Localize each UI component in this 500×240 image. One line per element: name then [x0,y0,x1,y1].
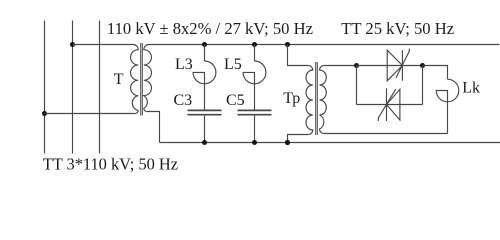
110 kV bus phase line 3 [99,21,101,154]
thyristor V2 (bottom, anode right) [387,89,400,120]
27 kV / 25 kV top bus wire [149,44,500,46]
transformer T primary winding [131,45,139,114]
capacitor C3 [188,109,222,111]
wire right rail of thyristor pair [422,66,424,105]
wire phase1 to transformer T primary bottom [45,113,136,115]
wire Tp primary top drop [288,45,309,66]
node dot A [354,63,359,68]
svg-text:TT 25 kV; 50 Hz: TT 25 kV; 50 Hz [341,19,454,38]
thyristor V1 gate [396,49,409,78]
svg-text:TT 3*110 kV; 50 Hz: TT 3*110 kV; 50 Hz [43,155,178,174]
wire phase2 to transformer T primary top [73,44,134,46]
node dot B [420,63,425,68]
transformer Tp secondary winding [320,66,327,134]
wire L3 branch top [204,45,206,62]
110 kV bus phase line 2 [72,21,74,154]
wire C3 bottom to rail [204,116,206,143]
wire Tp primary bottom to rail [288,135,309,143]
svg-text:L5: L5 [224,56,242,73]
wire C5 bottom to rail [254,116,256,143]
wire left rail of thyristor pair [356,66,358,105]
svg-text:L: L [462,80,472,97]
junction dot Tp rail [285,140,290,145]
transformer T core [140,43,142,116]
svg-text:p: p [292,90,300,107]
transformer Tp core [315,62,317,135]
svg-text:C3: C3 [174,92,193,109]
node dot L5 top [252,42,257,47]
wire T secondary bottom to rail bus [147,112,160,143]
110 kV bus phase line 1 [44,21,46,154]
wire Lk bottom to Tp secondary bottom [324,133,448,135]
node dot Tp top [285,42,290,47]
reactor L5 [243,61,266,110]
capacitor C5 [238,109,272,111]
transformer Tp primary winding [306,66,313,135]
reactor L3 [193,61,216,110]
junction dot C5 rail [252,140,257,145]
reactor Lk [436,79,459,133]
svg-text:L3: L3 [175,56,193,73]
svg-text:C5: C5 [226,92,245,109]
wire bottom thyristor branch [357,104,423,106]
thyristor V2 gate [378,89,396,121]
svg-text:110 kV ± 8x2% / 27 kV; 50 Hz: 110 kV ± 8x2% / 27 kV; 50 Hz [107,19,313,38]
junction dot on phase 2 [70,42,75,47]
node dot L3 top [202,42,207,47]
svg-text:T: T [114,71,124,88]
thyristor V1 (top, anode left) [387,50,402,81]
transformer T secondary winding [144,45,152,112]
wire Tp secondary top to thyristor nodes [324,65,357,67]
junction dot on phase 1 [42,111,47,116]
junction dot C3 rail [202,140,207,145]
wire top thyristor branch [357,65,423,67]
wire thyristor B node to Lk [423,66,448,80]
rail (return) bottom bus wire [160,142,500,144]
wire L5 branch top [254,45,256,62]
svg-text:k: k [472,80,480,97]
